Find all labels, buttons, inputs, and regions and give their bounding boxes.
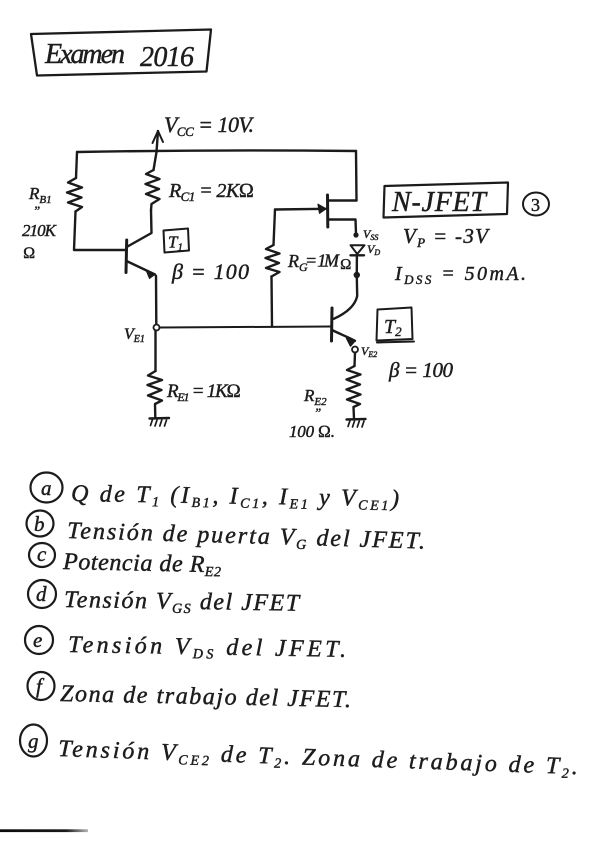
svg-text:”: ” xyxy=(33,203,40,218)
svg-text:T2: T2 xyxy=(384,316,402,339)
svg-text:a: a xyxy=(41,476,52,500)
svg-text:VP = -3V: VP = -3V xyxy=(403,224,490,250)
svg-text:210K: 210K xyxy=(22,221,58,240)
svg-text:Zona de trabajo del JFET.: Zona de trabajo del JFET. xyxy=(60,681,351,713)
svg-text:T1: T1 xyxy=(168,233,183,254)
svg-text:β = 100: β = 100 xyxy=(388,358,454,382)
svg-text:3: 3 xyxy=(531,195,540,215)
svg-text:Tensión VDS del JFET.: Tensión VDS del JFET. xyxy=(68,632,346,665)
svg-text:VE1: VE1 xyxy=(124,326,145,345)
svg-text:Ω: Ω xyxy=(340,257,352,273)
svg-text:d: d xyxy=(36,582,47,606)
svg-text:e: e xyxy=(33,628,42,652)
svg-text:f: f xyxy=(36,674,45,698)
svg-text:VD: VD xyxy=(367,242,380,257)
svg-text:IDSS = 50mA.: IDSS = 50mA. xyxy=(394,263,526,287)
svg-text:”: ” xyxy=(314,405,321,420)
svg-text:RE1 = 1KΩ: RE1 = 1KΩ xyxy=(166,381,241,404)
svg-text:100 Ω.: 100 Ω. xyxy=(289,422,335,441)
svg-text:Potencia de RE2: Potencia de RE2 xyxy=(62,549,222,580)
svg-text:= 1M: = 1M xyxy=(305,251,340,271)
svg-text:Tensión VGS del JFET: Tensión VGS del JFET xyxy=(64,587,301,619)
svg-text:β = 100: β = 100 xyxy=(171,259,249,284)
svg-text:N-JFET: N-JFET xyxy=(391,187,488,218)
svg-text:RC1 = 2KΩ: RC1 = 2KΩ xyxy=(168,180,254,204)
svg-text:b: b xyxy=(34,512,45,536)
svg-text:Q de T1 (IB1, IC1, IE1 y VCE1): Q de T1 (IB1, IC1, IE1 y VCE1) xyxy=(71,481,399,514)
svg-text:VSS: VSS xyxy=(363,227,378,242)
svg-text:Ω: Ω xyxy=(23,245,35,262)
svg-text:g: g xyxy=(28,729,39,753)
svg-text:VE2: VE2 xyxy=(361,344,377,359)
svg-text:Tensión VCE2 de T2. Zona de tr: Tensión VCE2 de T2. Zona de trabajo de T… xyxy=(58,736,579,782)
svg-text:Examen: Examen xyxy=(44,39,125,70)
svg-text:2016: 2016 xyxy=(140,42,194,73)
svg-text:c: c xyxy=(37,542,47,566)
svg-text:VCC = 10V.: VCC = 10V. xyxy=(164,112,254,139)
